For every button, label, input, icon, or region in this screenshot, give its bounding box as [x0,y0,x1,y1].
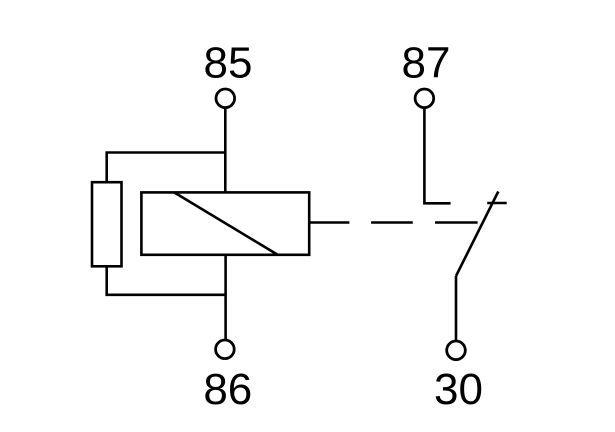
wire terminal 85 to coil top [224,108,227,193]
coil armature stub [309,221,349,224]
relay coil K1 [141,192,309,254]
wire terminal 87 to fixed contact [424,108,450,204]
svg-text:85: 85 [204,39,253,88]
contact rest tick [487,202,507,205]
switch blade [456,192,498,277]
wire blade to terminal 30 [455,276,458,341]
coil diagonal [174,192,278,254]
svg-text:86: 86 [203,365,252,414]
terminal 30 [447,341,466,360]
resistor R1 [92,182,122,266]
wire coil branch to resistor top [107,153,226,183]
svg-text:87: 87 [402,39,451,88]
wire coil bottom to terminal 86 [224,255,227,340]
armature dashed link [371,221,478,224]
terminal 86 [216,340,235,359]
terminal 85 [216,89,235,108]
svg-text:30: 30 [434,365,483,414]
terminal 87 [415,89,434,108]
wire resistor bottom to coil branch [107,266,226,295]
